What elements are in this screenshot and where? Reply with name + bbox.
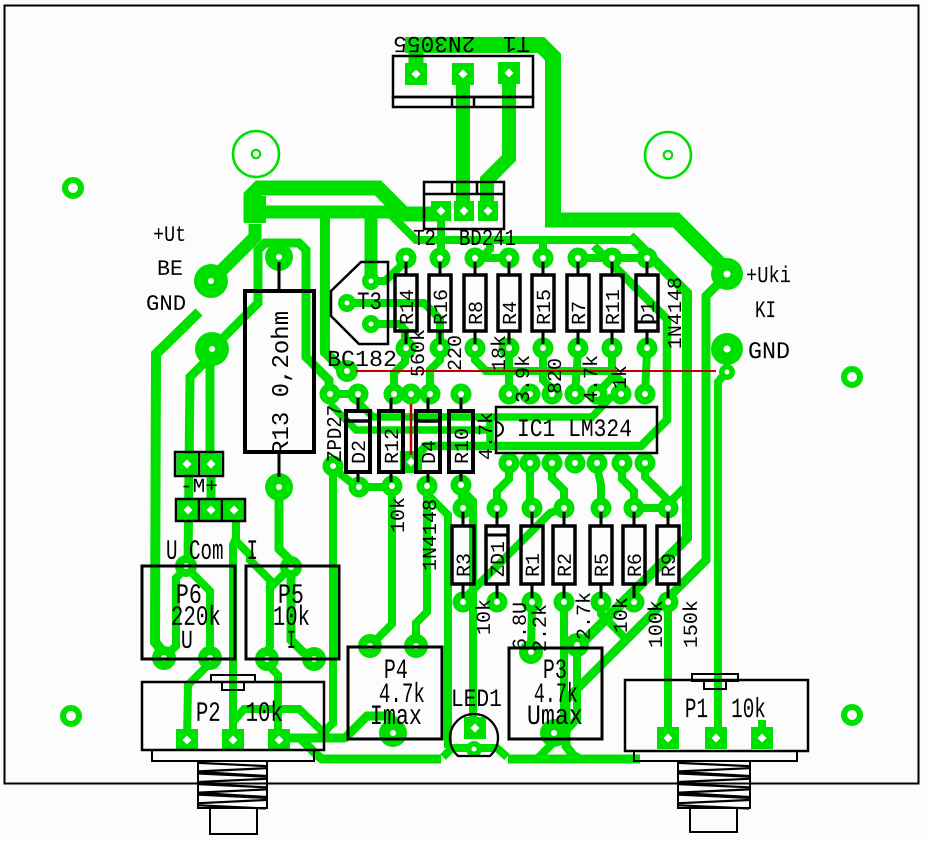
svg-text:18k: 18k <box>489 335 512 371</box>
svg-text:4.7k: 4.7k <box>581 355 604 403</box>
svg-text:T3: T3 <box>357 288 382 317</box>
svg-text:10k: 10k <box>388 497 411 533</box>
svg-text:D2: D2 <box>349 440 372 464</box>
svg-text:+Ut: +Ut <box>153 223 186 248</box>
svg-text:+Uki: +Uki <box>746 263 791 289</box>
svg-text:D1: D1 <box>638 301 661 325</box>
svg-text:R7: R7 <box>569 301 592 325</box>
svg-text:R9: R9 <box>659 553 682 577</box>
svg-text:1N4148: 1N4148 <box>420 499 443 571</box>
svg-text:P1 10k: P1 10k <box>685 695 766 726</box>
svg-text:ZD1: ZD1 <box>488 541 511 577</box>
svg-text:4.7k: 4.7k <box>476 412 499 460</box>
svg-text:U: U <box>181 626 193 656</box>
svg-text:T2 BD241: T2 BD241 <box>413 226 516 252</box>
svg-text:560k: 560k <box>408 329 431 377</box>
svg-text:R6: R6 <box>625 553 648 577</box>
svg-text:3.9k: 3.9k <box>513 355 536 403</box>
svg-text:R10: R10 <box>452 428 475 464</box>
svg-text:I: I <box>287 626 296 656</box>
svg-text:220: 220 <box>445 335 468 371</box>
svg-text:T1 2N3055: T1 2N3055 <box>393 30 530 56</box>
svg-text:P2 10k: P2 10k <box>196 699 283 730</box>
svg-text:2.2k: 2.2k <box>530 604 553 652</box>
svg-text:150k: 150k <box>681 600 704 648</box>
svg-text:R2: R2 <box>555 553 578 577</box>
svg-text:D4: D4 <box>419 440 442 464</box>
svg-text:GND: GND <box>748 339 790 366</box>
svg-text:IC1 LM324: IC1 LM324 <box>517 415 632 444</box>
svg-text:Umax: Umax <box>527 702 583 733</box>
svg-text:10k: 10k <box>474 599 497 635</box>
svg-text:820: 820 <box>545 358 568 394</box>
svg-text:R5: R5 <box>592 553 615 577</box>
svg-text:U Com I: U Com I <box>166 537 258 568</box>
svg-text:1N4148: 1N4148 <box>665 277 688 349</box>
svg-text:100k: 100k <box>646 600 669 648</box>
svg-text:R13 0,2ohm: R13 0,2ohm <box>269 311 296 455</box>
svg-text:2.7k: 2.7k <box>574 592 597 640</box>
svg-text:R8: R8 <box>466 301 489 325</box>
svg-text:R12: R12 <box>382 428 405 464</box>
svg-text:GND: GND <box>146 292 186 317</box>
svg-text:220k: 220k <box>171 603 221 634</box>
svg-text:R3: R3 <box>454 553 477 577</box>
svg-text:R11: R11 <box>603 289 626 325</box>
svg-text:BE: BE <box>157 257 183 282</box>
svg-text:R16: R16 <box>431 289 454 325</box>
svg-text:R15: R15 <box>534 289 557 325</box>
svg-text:R4: R4 <box>500 301 523 325</box>
svg-text:R14: R14 <box>397 289 420 325</box>
svg-text:1k: 1k <box>610 365 633 389</box>
svg-text:R1: R1 <box>523 553 546 577</box>
svg-text:-M+: -M+ <box>180 476 218 499</box>
svg-text:Imax: Imax <box>370 702 422 733</box>
svg-text:KI: KI <box>755 298 776 325</box>
svg-text:ZPD27: ZPD27 <box>325 405 348 462</box>
svg-text:10k: 10k <box>611 597 634 633</box>
svg-text:LED1: LED1 <box>451 685 502 714</box>
svg-text:BC182: BC182 <box>327 347 397 373</box>
